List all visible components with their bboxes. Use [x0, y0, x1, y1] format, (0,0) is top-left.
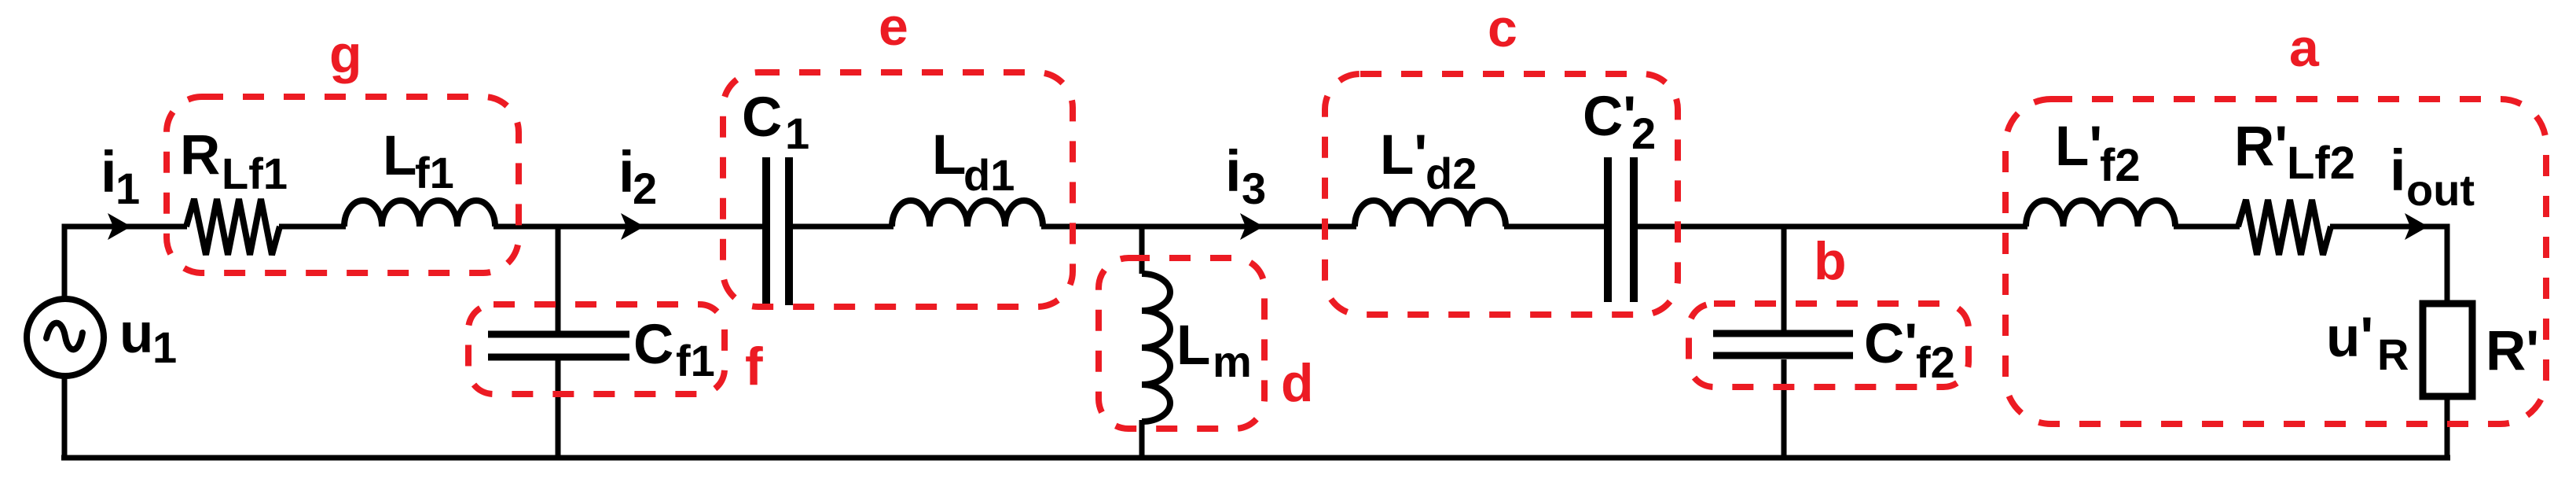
wire: resistor to inductor Lf1: [279, 224, 346, 230]
svg-text:C': C': [1864, 313, 1917, 375]
svg-text:i: i: [101, 139, 117, 204]
wire: source bottom lead: [62, 374, 68, 458]
svg-text:2: 2: [1631, 109, 1656, 158]
svg-text:C: C: [633, 314, 673, 376]
svg-text:C: C: [742, 87, 782, 149]
arrow i3: [1240, 213, 1264, 240]
svg-text:L: L: [932, 124, 966, 186]
svg-text:1: 1: [152, 322, 177, 372]
wire: L'f2 to resistor R'Lf2: [2174, 224, 2240, 230]
svg-text:L': L': [1380, 124, 1427, 186]
svg-text:f2: f2: [2100, 140, 2141, 191]
svg-text:L: L: [1176, 315, 1210, 377]
wire: load R' bottom lead to bottom rail: [2445, 396, 2450, 458]
inductor L_d1: [892, 201, 1043, 227]
svg-text:u: u: [119, 303, 153, 365]
inductor L'_d2: [1355, 201, 1506, 227]
capacitor C'_f2 (shunt, horizontal plates): [1713, 330, 1853, 337]
svg-text:a: a: [2289, 18, 2320, 78]
inductor L_m (shunt coil): [1142, 274, 1170, 422]
svg-text:3: 3: [1242, 164, 1266, 213]
svg-text:f2: f2: [1916, 337, 1955, 387]
wire: Lm coil bottom to bottom rail: [1139, 420, 1145, 458]
wire: branch at node x=710 down to Cf1 top plate: [556, 227, 561, 331]
wire: bottom rail: [61, 455, 2450, 461]
svg-text:R: R: [180, 124, 220, 186]
svg-text:d: d: [1281, 353, 1314, 413]
svg-text:2: 2: [633, 164, 657, 213]
svg-text:i: i: [1225, 138, 1242, 204]
resistor R'_Lf2: [2238, 200, 2331, 255]
svg-text:Lf2: Lf2: [2287, 138, 2355, 189]
wire: L'd2 to C'2 left plate: [1504, 224, 1605, 230]
svg-text:g: g: [329, 24, 362, 84]
load resistor R' (rectangle): [2423, 304, 2472, 396]
svg-text:b: b: [1814, 231, 1847, 291]
wire: R'Lf2 to top-right corner down to load R': [2330, 227, 2447, 304]
wire: C'2 right plate to L'f2 through node at x=2270: [1636, 224, 2027, 230]
svg-text:f1: f1: [415, 148, 454, 197]
capacitor C1 (series, vertical plates): [762, 157, 770, 305]
svg-text:Lf1: Lf1: [222, 149, 288, 198]
svg-text:i: i: [2390, 138, 2406, 203]
wire: branch at node x=2270 down to C'f2 top plate: [1782, 227, 1787, 330]
svg-text:1: 1: [785, 109, 809, 158]
box d (red dashed): [1099, 258, 1264, 429]
wire: branch at node x=1453 down to Lm coil: [1139, 227, 1145, 274]
svg-text:c: c: [1488, 0, 1517, 58]
wire: Ld1 to L'd2 through node at x=1453: [1041, 224, 1356, 230]
svg-text:L: L: [383, 125, 416, 187]
svg-text:m: m: [1213, 337, 1252, 386]
svg-text:L': L': [2055, 116, 2102, 178]
inductor L'_f2: [2026, 201, 2175, 227]
svg-text:f1: f1: [676, 336, 715, 385]
box e (red dashed): [723, 72, 1073, 307]
box c (red dashed): [1325, 74, 1678, 315]
wire: Cf1 bottom plate to bottom rail: [556, 360, 561, 458]
resistor R_Lf1: [186, 199, 280, 255]
box a (red dashed): [2005, 99, 2546, 424]
svg-text:f: f: [745, 337, 763, 396]
svg-text:1: 1: [116, 164, 140, 213]
svg-text:R: R: [2377, 330, 2409, 379]
inductor L_f1: [344, 201, 495, 227]
svg-text:d1: d1: [963, 150, 1015, 200]
wire: C1 right plate to Ld1: [791, 224, 894, 230]
svg-text:R': R': [2234, 116, 2288, 178]
svg-text:R': R': [2486, 320, 2539, 382]
svg-text:out: out: [2406, 165, 2475, 215]
wire: Lf1 to C1 left plate through node at x=710: [494, 224, 764, 230]
svg-text:e: e: [879, 0, 908, 57]
box b (red dashed): [1689, 304, 1969, 387]
arrow i1: [108, 213, 131, 240]
capacitor C'_2 (series, vertical plates): [1604, 157, 1612, 302]
wire: source top lead and top-left corner to resistor: [64, 227, 187, 302]
box f (red dashed): [468, 304, 725, 394]
capacitor C_f1 (shunt, horizontal plates): [488, 331, 629, 338]
svg-text:d2: d2: [1426, 149, 1477, 198]
arrow i_out: [2405, 213, 2428, 240]
svg-text:u': u': [2326, 307, 2373, 369]
wire: C'f2 bottom plate to bottom rail: [1782, 359, 1787, 458]
box g (red dashed): [167, 97, 519, 273]
arrow i2: [621, 213, 644, 240]
svg-text:C': C': [1583, 86, 1636, 148]
source U1 (AC voltage source circle): [27, 299, 104, 376]
